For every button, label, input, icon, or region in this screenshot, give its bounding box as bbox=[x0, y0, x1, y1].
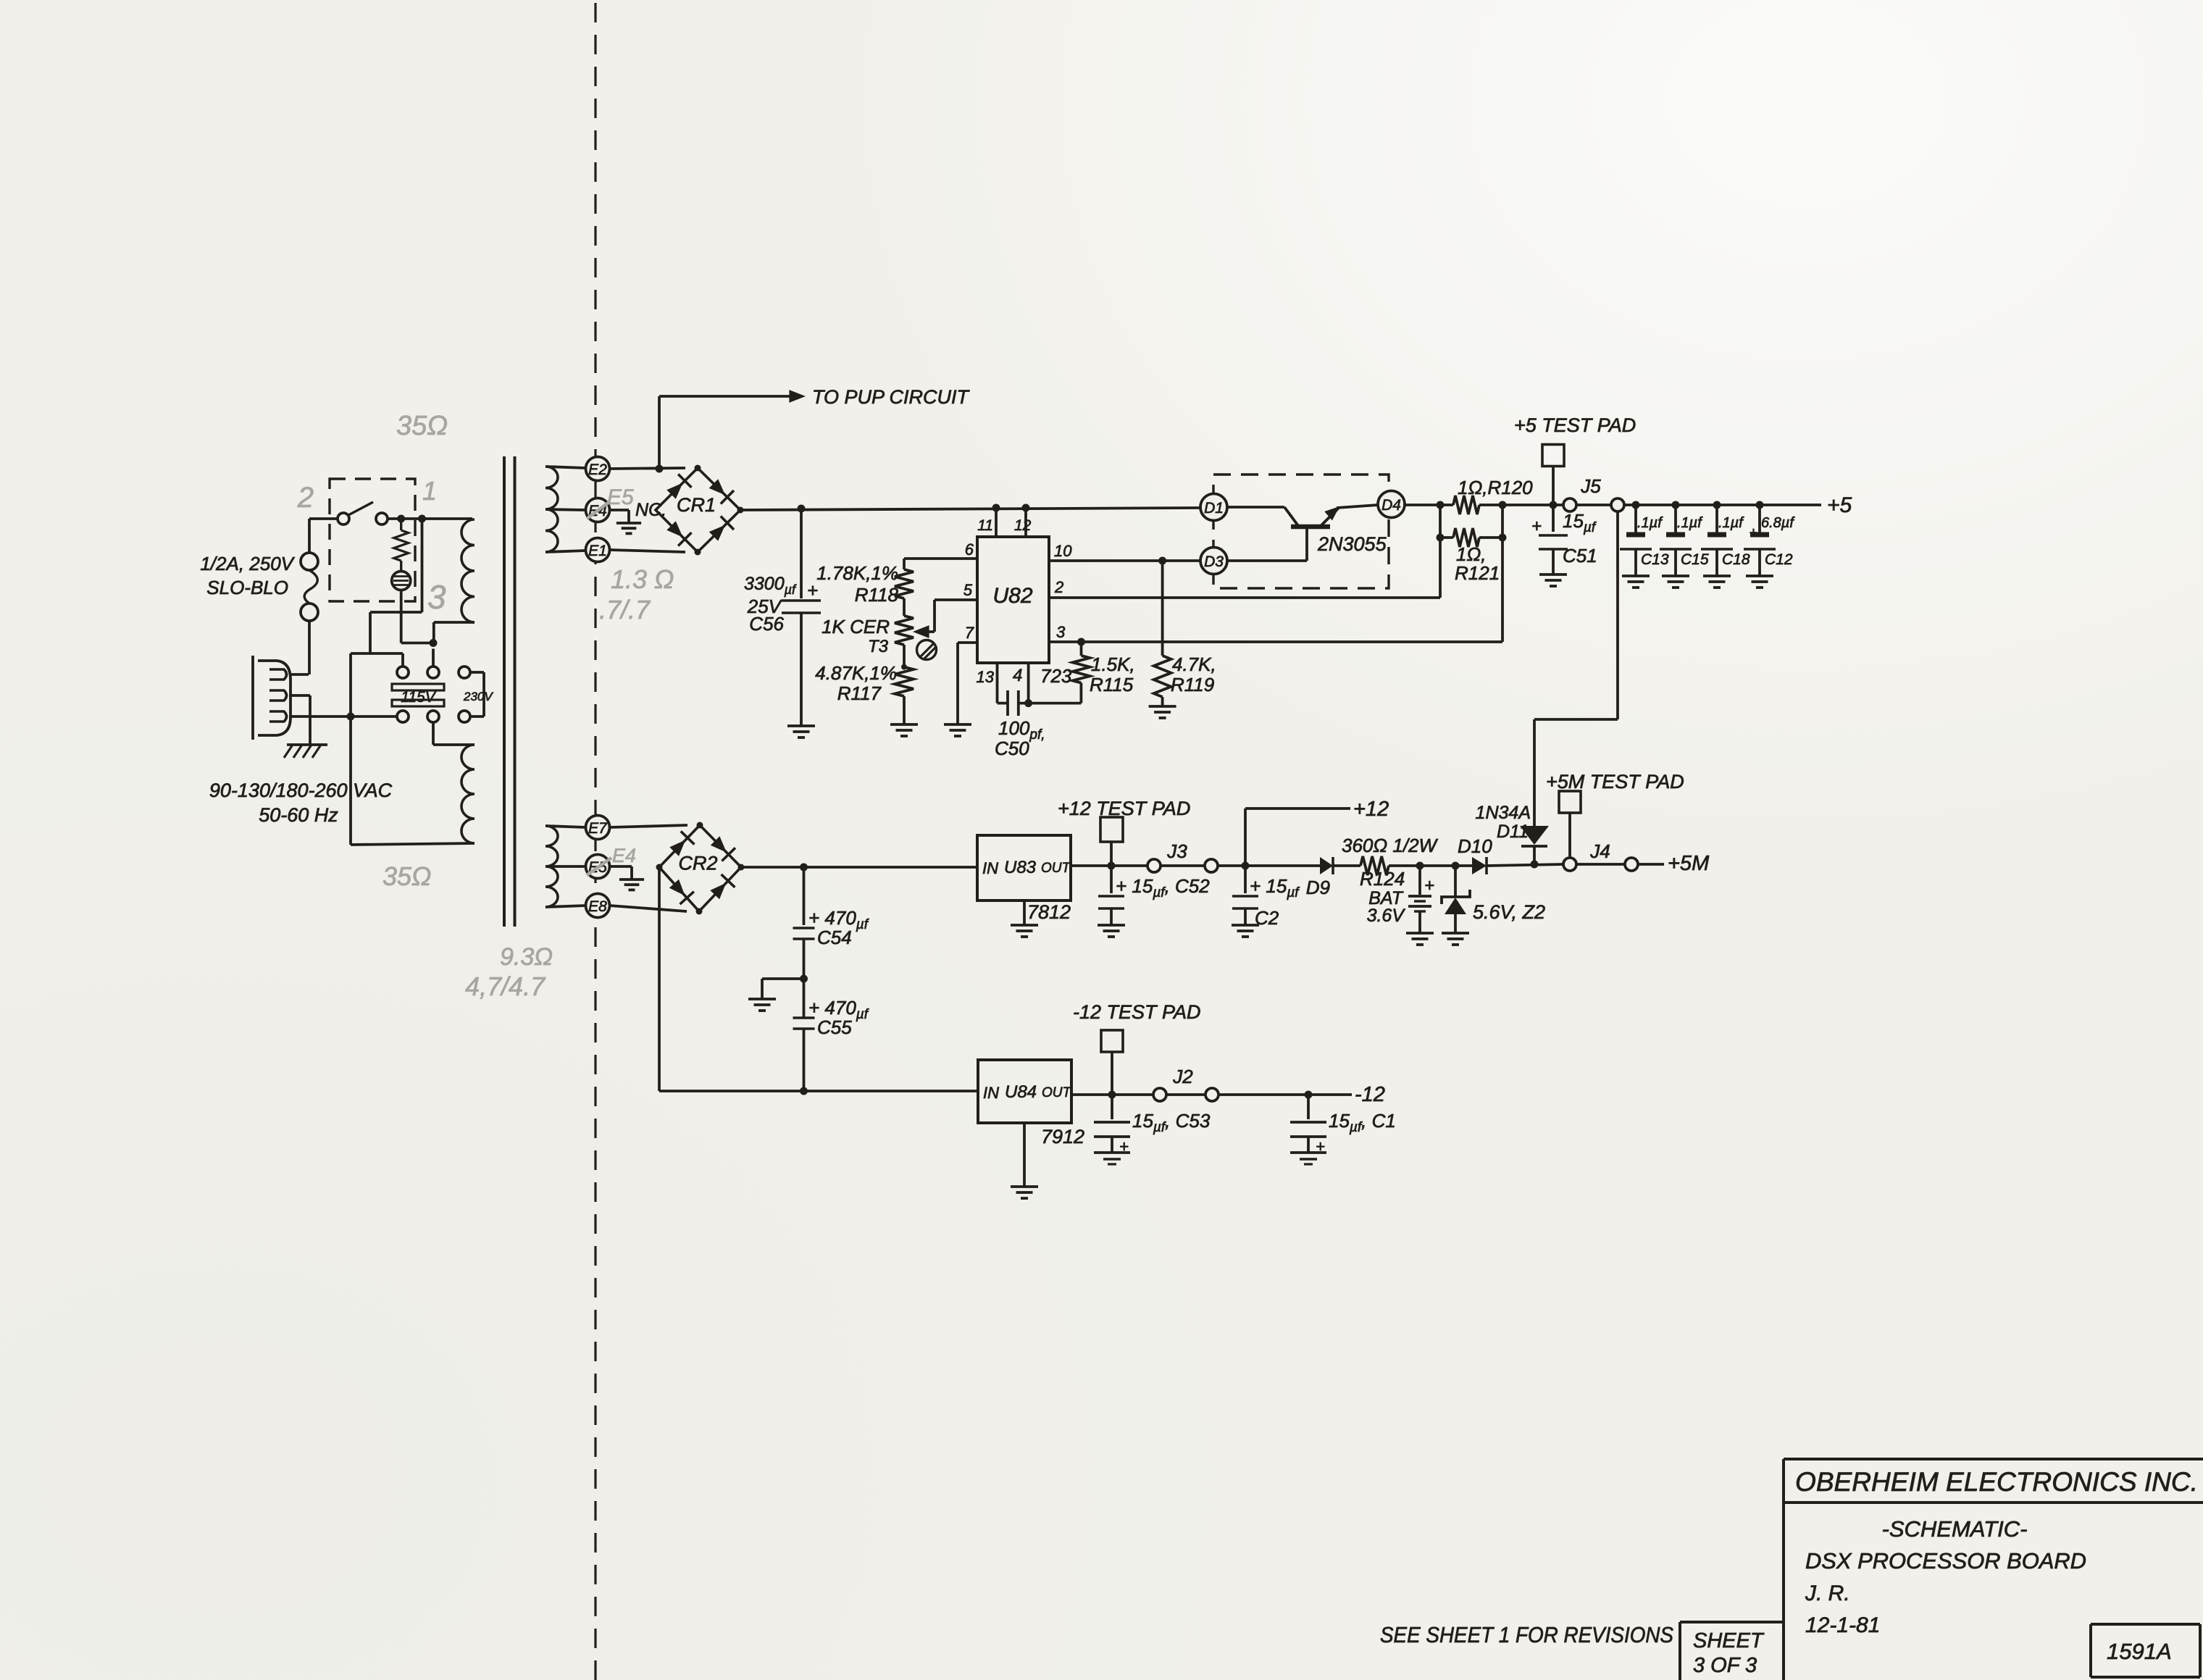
svg-text:SHEET: SHEET bbox=[1693, 1629, 1765, 1652]
svg-text:90-130/180-260 VAC: 90-130/180-260 VAC bbox=[209, 780, 393, 801]
svg-text:723: 723 bbox=[1040, 665, 1072, 687]
svg-text:35Ω: 35Ω bbox=[383, 861, 431, 891]
svg-text:E1: E1 bbox=[588, 543, 607, 559]
svg-text:+5M TEST PAD: +5M TEST PAD bbox=[1546, 771, 1684, 793]
svg-text:3 OF 3: 3 OF 3 bbox=[1693, 1654, 1757, 1677]
svg-text:+: + bbox=[1424, 876, 1434, 895]
svg-text:DSX PROCESSOR BOARD: DSX PROCESSOR BOARD bbox=[1805, 1548, 2086, 1574]
svg-text:3.6V: 3.6V bbox=[1367, 906, 1406, 926]
svg-text:R118: R118 bbox=[855, 584, 899, 606]
svg-text:1/2A, 250V: 1/2A, 250V bbox=[200, 553, 295, 574]
svg-text:J5: J5 bbox=[1580, 475, 1601, 497]
svg-text:D4: D4 bbox=[1381, 497, 1401, 514]
svg-text:IN: IN bbox=[983, 1084, 999, 1102]
svg-text:C13: C13 bbox=[1641, 551, 1669, 568]
svg-text:10: 10 bbox=[1054, 542, 1072, 560]
svg-text:1.78K,1%: 1.78K,1% bbox=[816, 562, 898, 584]
svg-text:C56: C56 bbox=[749, 613, 784, 635]
svg-text:4.87K,1%: 4.87K,1% bbox=[815, 662, 897, 684]
svg-text:6: 6 bbox=[965, 540, 974, 559]
svg-text:7812: 7812 bbox=[1027, 901, 1071, 923]
svg-text:+: + bbox=[1749, 525, 1757, 541]
svg-text:12-1-81: 12-1-81 bbox=[1805, 1613, 1880, 1637]
svg-text:D9: D9 bbox=[1306, 877, 1330, 898]
svg-text:2: 2 bbox=[1054, 578, 1063, 596]
svg-text:3: 3 bbox=[427, 578, 446, 616]
svg-text:35Ω: 35Ω bbox=[396, 411, 448, 441]
svg-text:IN: IN bbox=[982, 859, 998, 877]
svg-text:1Ω,R120: 1Ω,R120 bbox=[1458, 477, 1533, 498]
svg-text:C54: C54 bbox=[817, 927, 852, 948]
svg-text:-12: -12 bbox=[1355, 1083, 1385, 1106]
svg-text:230V: 230V bbox=[463, 690, 493, 703]
svg-text:R121: R121 bbox=[1455, 562, 1500, 584]
svg-text:J2: J2 bbox=[1172, 1066, 1193, 1087]
svg-text:OUT: OUT bbox=[1041, 861, 1071, 876]
svg-text:4.7K,: 4.7K, bbox=[1172, 653, 1216, 675]
svg-text:E5: E5 bbox=[607, 485, 634, 509]
svg-text:-SCHEMATIC-: -SCHEMATIC- bbox=[1882, 1516, 2028, 1542]
svg-text:OUT: OUT bbox=[1042, 1085, 1072, 1100]
svg-text:E7: E7 bbox=[588, 820, 608, 837]
svg-text:1N34A: 1N34A bbox=[1476, 803, 1531, 823]
svg-text:T3: T3 bbox=[868, 637, 889, 656]
svg-text:D3: D3 bbox=[1204, 553, 1224, 570]
svg-text:C55: C55 bbox=[817, 1016, 852, 1038]
svg-text:1.3 Ω: 1.3 Ω bbox=[611, 564, 674, 594]
svg-text:13: 13 bbox=[977, 668, 995, 686]
svg-text:+: + bbox=[1531, 517, 1542, 536]
svg-text:1: 1 bbox=[422, 476, 437, 506]
svg-text:9.3Ω: 9.3Ω bbox=[500, 943, 553, 971]
svg-text:115V: 115V bbox=[401, 689, 436, 706]
svg-text:50-60 Hz: 50-60 Hz bbox=[259, 804, 338, 826]
svg-text:-12 TEST PAD: -12 TEST PAD bbox=[1073, 1001, 1201, 1023]
svg-text:R115: R115 bbox=[1090, 674, 1134, 695]
svg-text:SLO-BLO: SLO-BLO bbox=[206, 577, 288, 598]
svg-text:+5M: +5M bbox=[1668, 852, 1710, 875]
svg-text:U82: U82 bbox=[992, 584, 1032, 608]
svg-text:C18: C18 bbox=[1722, 551, 1750, 568]
svg-text:SEE SHEET 1 FOR REVISIONS: SEE SHEET 1 FOR REVISIONS bbox=[1380, 1622, 1673, 1647]
svg-text:D11: D11 bbox=[1497, 822, 1529, 842]
svg-text:.1µf: .1µf bbox=[1677, 515, 1703, 531]
svg-text:J4: J4 bbox=[1589, 840, 1610, 862]
svg-text:CR1: CR1 bbox=[677, 494, 716, 516]
svg-text:7912: 7912 bbox=[1041, 1126, 1084, 1148]
svg-text:R124: R124 bbox=[1360, 868, 1405, 890]
svg-text:J3: J3 bbox=[1166, 840, 1187, 862]
svg-text:360Ω 1/2W: 360Ω 1/2W bbox=[1342, 835, 1439, 856]
svg-text:D10: D10 bbox=[1458, 835, 1492, 857]
svg-text:5: 5 bbox=[963, 581, 973, 599]
svg-text:+12 TEST PAD: +12 TEST PAD bbox=[1058, 798, 1190, 819]
svg-text:TO PUP CIRCUIT: TO PUP CIRCUIT bbox=[812, 386, 971, 408]
svg-text:R117: R117 bbox=[837, 682, 882, 704]
svg-text:C15: C15 bbox=[1681, 551, 1709, 568]
svg-text:C12: C12 bbox=[1765, 551, 1793, 568]
svg-text:.1µf: .1µf bbox=[1637, 515, 1663, 531]
svg-text:.7/.7: .7/.7 bbox=[599, 595, 651, 624]
svg-text:3: 3 bbox=[1056, 623, 1066, 641]
svg-text:4,7/4.7: 4,7/4.7 bbox=[465, 971, 546, 1001]
svg-text:E2: E2 bbox=[588, 461, 607, 478]
svg-text:6.8µf: 6.8µf bbox=[1761, 515, 1795, 531]
svg-text:4: 4 bbox=[1013, 666, 1022, 685]
svg-text:7: 7 bbox=[965, 624, 974, 642]
svg-text:C51: C51 bbox=[1563, 545, 1597, 567]
svg-text:C50: C50 bbox=[995, 737, 1029, 759]
svg-text:2N3055: 2N3055 bbox=[1317, 533, 1387, 555]
svg-text:+12: +12 bbox=[1353, 798, 1389, 821]
svg-text:12: 12 bbox=[1014, 517, 1032, 534]
svg-text:2: 2 bbox=[297, 482, 314, 514]
svg-text:5.6V, Z2: 5.6V, Z2 bbox=[1473, 901, 1545, 923]
svg-text:1591A: 1591A bbox=[2107, 1639, 2172, 1664]
svg-text:+5 TEST PAD: +5 TEST PAD bbox=[1514, 414, 1636, 436]
svg-text:J. R.: J. R. bbox=[1805, 1581, 1850, 1605]
svg-text:15µf, C1: 15µf, C1 bbox=[1329, 1110, 1396, 1135]
svg-text:+5: +5 bbox=[1827, 493, 1852, 517]
svg-text:11: 11 bbox=[977, 517, 993, 534]
svg-text:U83: U83 bbox=[1004, 858, 1037, 877]
svg-text:CR2: CR2 bbox=[678, 853, 717, 874]
svg-text:E8: E8 bbox=[588, 898, 607, 915]
svg-text:.1µf: .1µf bbox=[1718, 515, 1744, 531]
svg-text:U84: U84 bbox=[1005, 1082, 1037, 1102]
svg-text:C2: C2 bbox=[1255, 907, 1279, 929]
svg-text:1.5K,: 1.5K, bbox=[1091, 653, 1135, 675]
svg-text:1K CER: 1K CER bbox=[822, 616, 890, 638]
svg-text:D1: D1 bbox=[1204, 500, 1224, 517]
svg-text:E4: E4 bbox=[612, 845, 636, 866]
svg-text:15µf, C53: 15µf, C53 bbox=[1132, 1110, 1211, 1135]
svg-text:R119: R119 bbox=[1171, 674, 1214, 695]
svg-text:OBERHEIM ELECTRONICS INC.: OBERHEIM ELECTRONICS INC. bbox=[1795, 1467, 2198, 1497]
